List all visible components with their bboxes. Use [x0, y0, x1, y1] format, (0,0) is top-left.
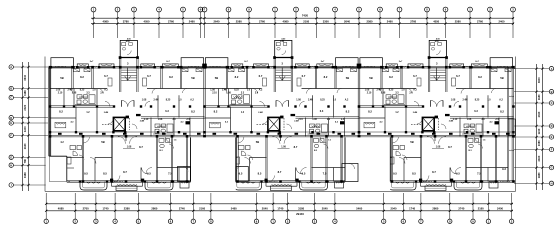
bearing wall lower module 1 dx62	[111, 136, 112, 181]
wall horizontal y117.5 module 1	[141, 117, 205, 125]
svg-text:2.4M: 2.4M	[140, 120, 145, 123]
svg-text:F: F	[10, 134, 12, 138]
svg-text:1.5: 1.5	[328, 140, 332, 142]
corridor door arcs module 1	[108, 119, 137, 129]
wall stub dx76 module 1	[125, 136, 127, 141]
svg-text:2020: 2020	[23, 104, 27, 110]
mid room labels module 1	[59, 110, 195, 115]
svg-text:6.7: 6.7	[259, 74, 263, 78]
svg-text:E: E	[10, 121, 12, 125]
wall mid vertical module 3 dx129	[487, 95, 489, 117]
svg-text:B: B	[551, 90, 553, 94]
svg-text:3: 3	[133, 8, 135, 12]
wall mid vertical module 3 dx108	[466, 95, 468, 117]
recess courtyard 2 white	[345, 137, 390, 190]
axis bubbles left column	[9, 65, 13, 187]
top dimension values	[103, 20, 505, 24]
svg-text:9: 9	[445, 8, 447, 12]
bearing wall lower module 3 dx107	[465, 136, 466, 181]
svg-text:2: 2	[511, 219, 513, 223]
recess 2 side walls	[345, 137, 390, 181]
stairwell walls module 2	[274, 58, 292, 93]
bath kitchen fixtures module 1	[75, 95, 174, 134]
svg-text:B.3: B.3	[468, 150, 472, 152]
mid small texts module 2	[225, 111, 339, 124]
small balcony module 3	[489, 182, 498, 189]
svg-text:8.2: 8.2	[169, 75, 173, 79]
svg-text:6.7: 6.7	[147, 74, 151, 78]
svg-text:9: 9	[472, 219, 474, 223]
bedroom labels module 1	[60, 74, 194, 80]
svg-text:2020: 2020	[537, 111, 541, 117]
dark blocks near elevator module 3	[435, 114, 450, 119]
extension lines bottom	[46, 193, 511, 219]
svg-text:2740: 2740	[458, 207, 464, 211]
svg-text:2040: 2040	[322, 207, 328, 211]
left room furniture module 3	[364, 122, 375, 128]
building ground line bottom	[45, 190, 516, 192]
wall stub dx76 module 3	[434, 136, 436, 141]
wall horizontal y136 module 1	[50, 136, 205, 137]
svg-text:1080: 1080	[537, 140, 541, 146]
svg-text:3: 3	[127, 62, 129, 66]
entrance terrace module 1	[116, 186, 137, 191]
stair tower module 2	[275, 37, 292, 57]
wall horizontal y106.5 module 1	[50, 106, 114, 107]
wall stubs below y157 module 3	[404, 158, 488, 182]
balcony door arcs module 2	[269, 168, 303, 182]
svg-text:4: 4	[334, 219, 336, 223]
svg-text:8.5: 8.5	[412, 172, 416, 176]
stair flight module 2	[276, 68, 291, 81]
svg-text:1: 1	[469, 8, 471, 12]
svg-text:2580: 2580	[367, 20, 373, 24]
party wall module 2	[204, 67, 205, 181]
svg-text:8.7: 8.7	[294, 145, 298, 149]
svg-text:1.2: 1.2	[86, 112, 90, 114]
right dimension values	[537, 77, 541, 179]
windows bottom wall module 3	[365, 181, 510, 182]
svg-text:F: F	[551, 148, 553, 152]
svg-text:1.08: 1.08	[381, 93, 386, 95]
wall mid vertical module 3 dx26	[384, 107, 386, 133]
closet crosses module 1	[74, 69, 203, 72]
svg-text:5B: 5B	[346, 76, 349, 80]
svg-text:2.10: 2.10	[298, 119, 303, 121]
bottom dimension line lower	[45, 210, 513, 212]
svg-text:8: 8	[449, 219, 451, 223]
party wall module 3	[358, 67, 360, 181]
wall mid vertical module 1 dx47	[96, 107, 98, 133]
svg-text:2: 2	[489, 8, 491, 12]
svg-text:4050: 4050	[144, 20, 150, 24]
balcony door arcs module 1	[114, 168, 148, 182]
wall horizontal y106.5 module 3	[359, 106, 423, 107]
svg-text:2040: 2040	[391, 207, 397, 211]
dark blocks near elevator module 1	[126, 114, 141, 119]
svg-text:7420: 7420	[302, 14, 309, 18]
corner bay window right module 2	[336, 58, 359, 67]
wall mid vertical module 2 dx47	[251, 107, 253, 133]
svg-text:5B: 5B	[256, 140, 259, 144]
bearing wall lower module 2 dx122	[326, 136, 327, 181]
bay window module 1 dx27.2	[77, 64, 88, 67]
exterior wall bottom	[46, 181, 514, 182]
wall horizontal y117.5 module 3	[450, 117, 514, 125]
svg-text:8.7: 8.7	[139, 145, 143, 149]
svg-text:2760: 2760	[477, 20, 483, 24]
windows bottom wall module 1	[56, 181, 201, 182]
svg-text:4: 4	[334, 8, 336, 12]
balcony module 1 dx95	[145, 182, 173, 191]
bay window module 2 dx112.3	[317, 64, 333, 67]
bay labels module 1	[90, 61, 171, 63]
svg-text:1740: 1740	[277, 207, 283, 211]
svg-text:2760: 2760	[168, 20, 174, 24]
elevator shaft module 3	[422, 117, 434, 130]
svg-text:2x7: 2x7	[399, 61, 403, 63]
bedroom door arcs module 1	[68, 89, 187, 94]
bearing wall upper module 3 dx111.5	[470, 67, 471, 88]
overall width label 7420	[302, 14, 309, 18]
entrance terrace module 3	[425, 186, 446, 191]
bottom dimension values	[58, 207, 504, 211]
wall chunks y134 module 2	[213, 133, 356, 135]
svg-text:8.2: 8.2	[235, 75, 239, 79]
svg-text:8.7: 8.7	[448, 145, 452, 149]
svg-text:2x7: 2x7	[321, 61, 325, 63]
kitchen fixtures lower module 3	[384, 146, 407, 165]
mid small texts module 3	[379, 111, 493, 124]
bearing wall lower module 1 dx122	[171, 136, 172, 181]
wall mid vertical module 1 dx129	[178, 95, 180, 117]
bedroom door arcs module 3	[377, 89, 496, 94]
svg-text:1980: 1980	[537, 172, 541, 178]
stairwell walls module 1	[120, 58, 139, 93]
top dimension line lower	[91, 23, 514, 25]
bay window module 1 dx112.3	[162, 64, 178, 67]
svg-text:1.08: 1.08	[210, 90, 215, 92]
left end notch walls	[49, 156, 67, 181]
svg-text:8.25: 8.25	[389, 90, 394, 92]
svg-text:2460: 2460	[189, 20, 195, 24]
svg-text:1: 1	[93, 8, 95, 12]
elevator shaft module 2	[268, 117, 280, 130]
svg-text:3640: 3640	[537, 77, 541, 83]
svg-text:6.3: 6.3	[474, 110, 478, 113]
svg-text:9.5: 9.5	[456, 172, 460, 176]
wall upper horizontal left module 1	[50, 88, 107, 90]
svg-text:6.7: 6.7	[456, 74, 460, 78]
balcony module 2 dx95	[300, 182, 328, 191]
wall horizontal y106.5 module 2	[205, 106, 269, 107]
svg-text:1740: 1740	[103, 207, 109, 211]
svg-text:7: 7	[193, 219, 195, 223]
service band walls module 2	[219, 89, 345, 137]
svg-text:1.08: 1.08	[296, 100, 301, 102]
svg-text:2.4: 2.4	[255, 92, 259, 95]
svg-text:9: 9	[256, 219, 258, 223]
svg-text:1.08: 1.08	[56, 90, 61, 92]
recess 1 side walls	[191, 137, 236, 181]
left dimension line inner	[27, 62, 29, 191]
bath kitchen fixtures module 3	[384, 95, 483, 134]
svg-text:2.4M: 2.4M	[449, 120, 454, 123]
bedroom labels module 3	[369, 74, 503, 80]
svg-text:8: 8	[228, 8, 230, 12]
leader lines left	[13, 67, 48, 185]
right wall window marks	[509, 96, 514, 151]
svg-text:C: C	[551, 101, 553, 105]
svg-text:3: 3	[281, 62, 283, 66]
svg-text:A.2: A.2	[104, 89, 108, 92]
svg-text:8.7: 8.7	[123, 170, 127, 174]
stair hall label module 1	[127, 62, 129, 66]
svg-text:8.2: 8.2	[80, 75, 84, 79]
windows top wall module 1	[90, 65, 161, 68]
wall horizontal y132 module 3	[359, 131, 514, 133]
svg-text:2x7: 2x7	[244, 61, 248, 63]
svg-text:2580: 2580	[455, 20, 461, 24]
svg-text:6.7: 6.7	[104, 74, 108, 78]
svg-text:1.2: 1.2	[241, 112, 245, 114]
living room window recess module 2	[265, 179, 299, 187]
svg-text:A: A	[551, 67, 553, 71]
svg-text:5460: 5460	[356, 207, 362, 211]
tower bath fixtures module 2	[276, 40, 287, 55]
tower wall module 1	[119, 56, 139, 59]
svg-text:2: 2	[74, 219, 76, 223]
service band walls module 1	[64, 89, 190, 137]
svg-text:1: 1	[274, 8, 276, 12]
svg-text:A: A	[10, 65, 12, 69]
bay window module 3 dx90.8	[450, 64, 464, 67]
svg-text:2x7: 2x7	[90, 61, 94, 63]
closets upper module 2	[228, 69, 357, 87]
svg-text:6: 6	[170, 219, 172, 223]
wall chunks y134 module 3	[367, 133, 510, 135]
left room furniture module 1	[55, 122, 66, 128]
service band walls module 3	[373, 89, 499, 137]
svg-text:8.2: 8.2	[368, 110, 372, 114]
svg-text:1740: 1740	[409, 207, 415, 211]
bearing wall lower module 3 dx137	[495, 136, 496, 181]
svg-text:A.2: A.2	[499, 99, 503, 102]
bearing wall lower module 3 dx62	[420, 136, 421, 181]
left room furniture module 2	[210, 122, 221, 128]
svg-text:2.10: 2.10	[58, 93, 63, 95]
svg-text:9: 9	[248, 8, 250, 12]
svg-text:5: 5	[182, 8, 184, 12]
left end notch white	[46, 156, 67, 191]
entry door arcs module 1	[105, 100, 150, 106]
svg-text:H: H	[10, 163, 12, 167]
porch box module2 left	[236, 167, 249, 182]
dark blocks near elevator module 2	[280, 114, 295, 119]
svg-text:5B: 5B	[410, 140, 413, 144]
svg-text:1: 1	[488, 219, 490, 223]
wall lower horizontal left module 2	[222, 158, 267, 169]
corridor dashes module 1	[102, 118, 130, 130]
bearing wall upper module 1 dx111.5	[161, 67, 162, 88]
svg-text:2.4M: 2.4M	[67, 89, 72, 92]
svg-text:E: E	[551, 135, 553, 139]
svg-text:5B: 5B	[369, 76, 372, 80]
tower bath fixtures module 3	[431, 40, 442, 55]
wall lower horizontal right module 3	[466, 167, 508, 169]
bearing wall upper module 1 dx42.5	[92, 67, 93, 88]
bearing wall lower module 2 dx137	[341, 136, 342, 181]
balcony door arcs module 3	[423, 168, 457, 182]
windows bottom wall module 2	[211, 181, 356, 182]
bearing wall upper module 2 dx22.5	[226, 67, 227, 88]
svg-text:1.08: 1.08	[365, 90, 370, 92]
svg-text:9.3: 9.3	[502, 167, 506, 171]
wall horizontal y132 module 1	[50, 131, 205, 133]
svg-text:2740: 2740	[179, 207, 185, 211]
wall mid vertical module 3 dx47	[405, 107, 407, 133]
svg-text:4080: 4080	[58, 207, 64, 211]
svg-text:2400: 2400	[499, 20, 505, 24]
svg-text:4: 4	[114, 219, 116, 223]
svg-text:9.5: 9.5	[84, 172, 88, 176]
svg-text:1240: 1240	[23, 126, 27, 132]
corridor door arcs module 2	[263, 119, 292, 129]
bath fixtures lower module 2	[314, 139, 332, 153]
right dimension line outer	[541, 64, 543, 190]
svg-text:2.10: 2.10	[212, 93, 217, 95]
svg-text:1240: 1240	[537, 128, 541, 134]
wall upper horizontal left module 2	[205, 88, 262, 90]
svg-text:7: 7	[399, 8, 401, 12]
svg-text:2400: 2400	[497, 207, 503, 211]
lower room labels module 1	[60, 140, 197, 176]
exterior wall top module 2	[205, 67, 360, 69]
porch box module1 right	[178, 167, 191, 182]
kitchen fixtures lower module 1	[61, 146, 84, 165]
svg-text:6: 6	[379, 8, 381, 12]
bearing wall upper module 3 dx22.5	[381, 67, 382, 88]
svg-text:2460: 2460	[387, 20, 393, 24]
svg-text:6.7: 6.7	[302, 74, 306, 78]
bay window module 3 dx27.2	[386, 64, 397, 67]
svg-text:2.4M: 2.4M	[258, 111, 263, 114]
windows top wall module 3	[399, 65, 470, 68]
svg-text:2x7: 2x7	[475, 61, 479, 63]
svg-text:8.7: 8.7	[432, 170, 436, 174]
svg-text:9.5: 9.5	[147, 172, 151, 176]
svg-text:8.2: 8.2	[214, 110, 218, 114]
svg-text:1.0: 1.0	[247, 90, 251, 92]
svg-text:1.08: 1.08	[72, 93, 77, 95]
svg-text:3: 3	[95, 219, 97, 223]
bearing wall lower module 3 dx33	[391, 136, 392, 181]
wall mid vertical module 2 dx129	[333, 95, 335, 117]
bearing wall upper module 3 dx42.5	[401, 67, 402, 88]
party wall bay block module 3	[357, 64, 362, 68]
bearing wall lower module 2 dx33	[237, 136, 238, 181]
svg-text:9.5: 9.5	[302, 172, 306, 176]
svg-text:7: 7	[420, 219, 422, 223]
svg-text:4.2: 4.2	[225, 121, 229, 124]
mid room labels module 2	[214, 110, 350, 115]
svg-text:8.25: 8.25	[234, 90, 239, 92]
party wall module 1	[49, 67, 51, 181]
svg-text:5: 5	[358, 8, 360, 12]
svg-text:3300: 3300	[323, 20, 329, 24]
svg-text:5B: 5B	[215, 76, 218, 80]
bay labels module 2	[244, 61, 325, 63]
wall right end strip	[507, 67, 509, 181]
svg-text:3780: 3780	[123, 20, 129, 24]
svg-text:1180: 1180	[23, 90, 27, 96]
svg-text:4.2: 4.2	[60, 141, 64, 144]
stair hall label module 3	[436, 62, 438, 66]
exterior wall top module 1	[50, 67, 205, 69]
bearing wall upper module 2 dx42.5	[246, 67, 247, 88]
wall upper horizontal right module 3	[456, 88, 514, 90]
svg-text:B: B	[10, 87, 12, 91]
svg-text:1.08: 1.08	[142, 100, 147, 102]
svg-text:2x7: 2x7	[166, 61, 170, 63]
closets upper module 1	[74, 69, 203, 87]
wall mid vertical module 2 dx26	[230, 107, 232, 133]
recess courtyard 1 white	[191, 137, 236, 190]
svg-text:1.08: 1.08	[467, 119, 472, 121]
svg-text:D: D	[551, 124, 553, 128]
corner bay window left module 1	[51, 58, 74, 67]
svg-text:5B: 5B	[60, 76, 63, 80]
bearing wall lower module 3 dx122	[480, 136, 481, 181]
exterior wall top module 3	[359, 67, 514, 69]
lower room labels module 3	[369, 140, 506, 176]
wall lower horizontal right module 1	[157, 167, 199, 169]
svg-text:1.08: 1.08	[226, 93, 231, 95]
lower room labels module 2	[215, 140, 352, 176]
svg-text:2.4M: 2.4M	[104, 111, 109, 114]
bay window module 2 dx90.8	[295, 64, 309, 67]
left dimension values	[23, 74, 27, 178]
svg-text:1.5: 1.5	[483, 140, 487, 142]
wall stub dx76 module 2	[280, 136, 282, 141]
living room window recess module 3	[419, 179, 453, 187]
columns module 3	[358, 66, 515, 183]
svg-text:2700: 2700	[83, 207, 89, 211]
svg-text:2.4: 2.4	[100, 92, 104, 95]
svg-text:1: 1	[45, 219, 47, 223]
bottom dimension line upper	[45, 203, 513, 205]
svg-text:2640: 2640	[214, 20, 220, 24]
bath fixtures lower module 3	[468, 139, 486, 153]
building outer outline left	[44, 57, 46, 192]
svg-text:3.3: 3.3	[86, 93, 90, 95]
svg-text:2760: 2760	[410, 20, 416, 24]
corner bay window right module 3	[490, 58, 512, 67]
svg-text:8.7: 8.7	[278, 170, 282, 174]
svg-text:1: 1	[272, 219, 274, 223]
bath fixtures lower module 1	[159, 139, 177, 153]
svg-text:2760: 2760	[259, 20, 265, 24]
bearing wall lower module 2 dx62	[266, 136, 267, 181]
wall horizontal y118 module 3	[359, 117, 385, 119]
grid extension lines top	[94, 12, 514, 38]
stair hall label module 2	[281, 62, 283, 66]
stair flight module 3	[430, 68, 445, 81]
svg-text:A.2: A.2	[345, 99, 349, 102]
bearing wall lower module 1 dx137	[186, 136, 187, 181]
stair tower module 1	[120, 37, 137, 57]
svg-text:4.2: 4.2	[335, 121, 339, 124]
